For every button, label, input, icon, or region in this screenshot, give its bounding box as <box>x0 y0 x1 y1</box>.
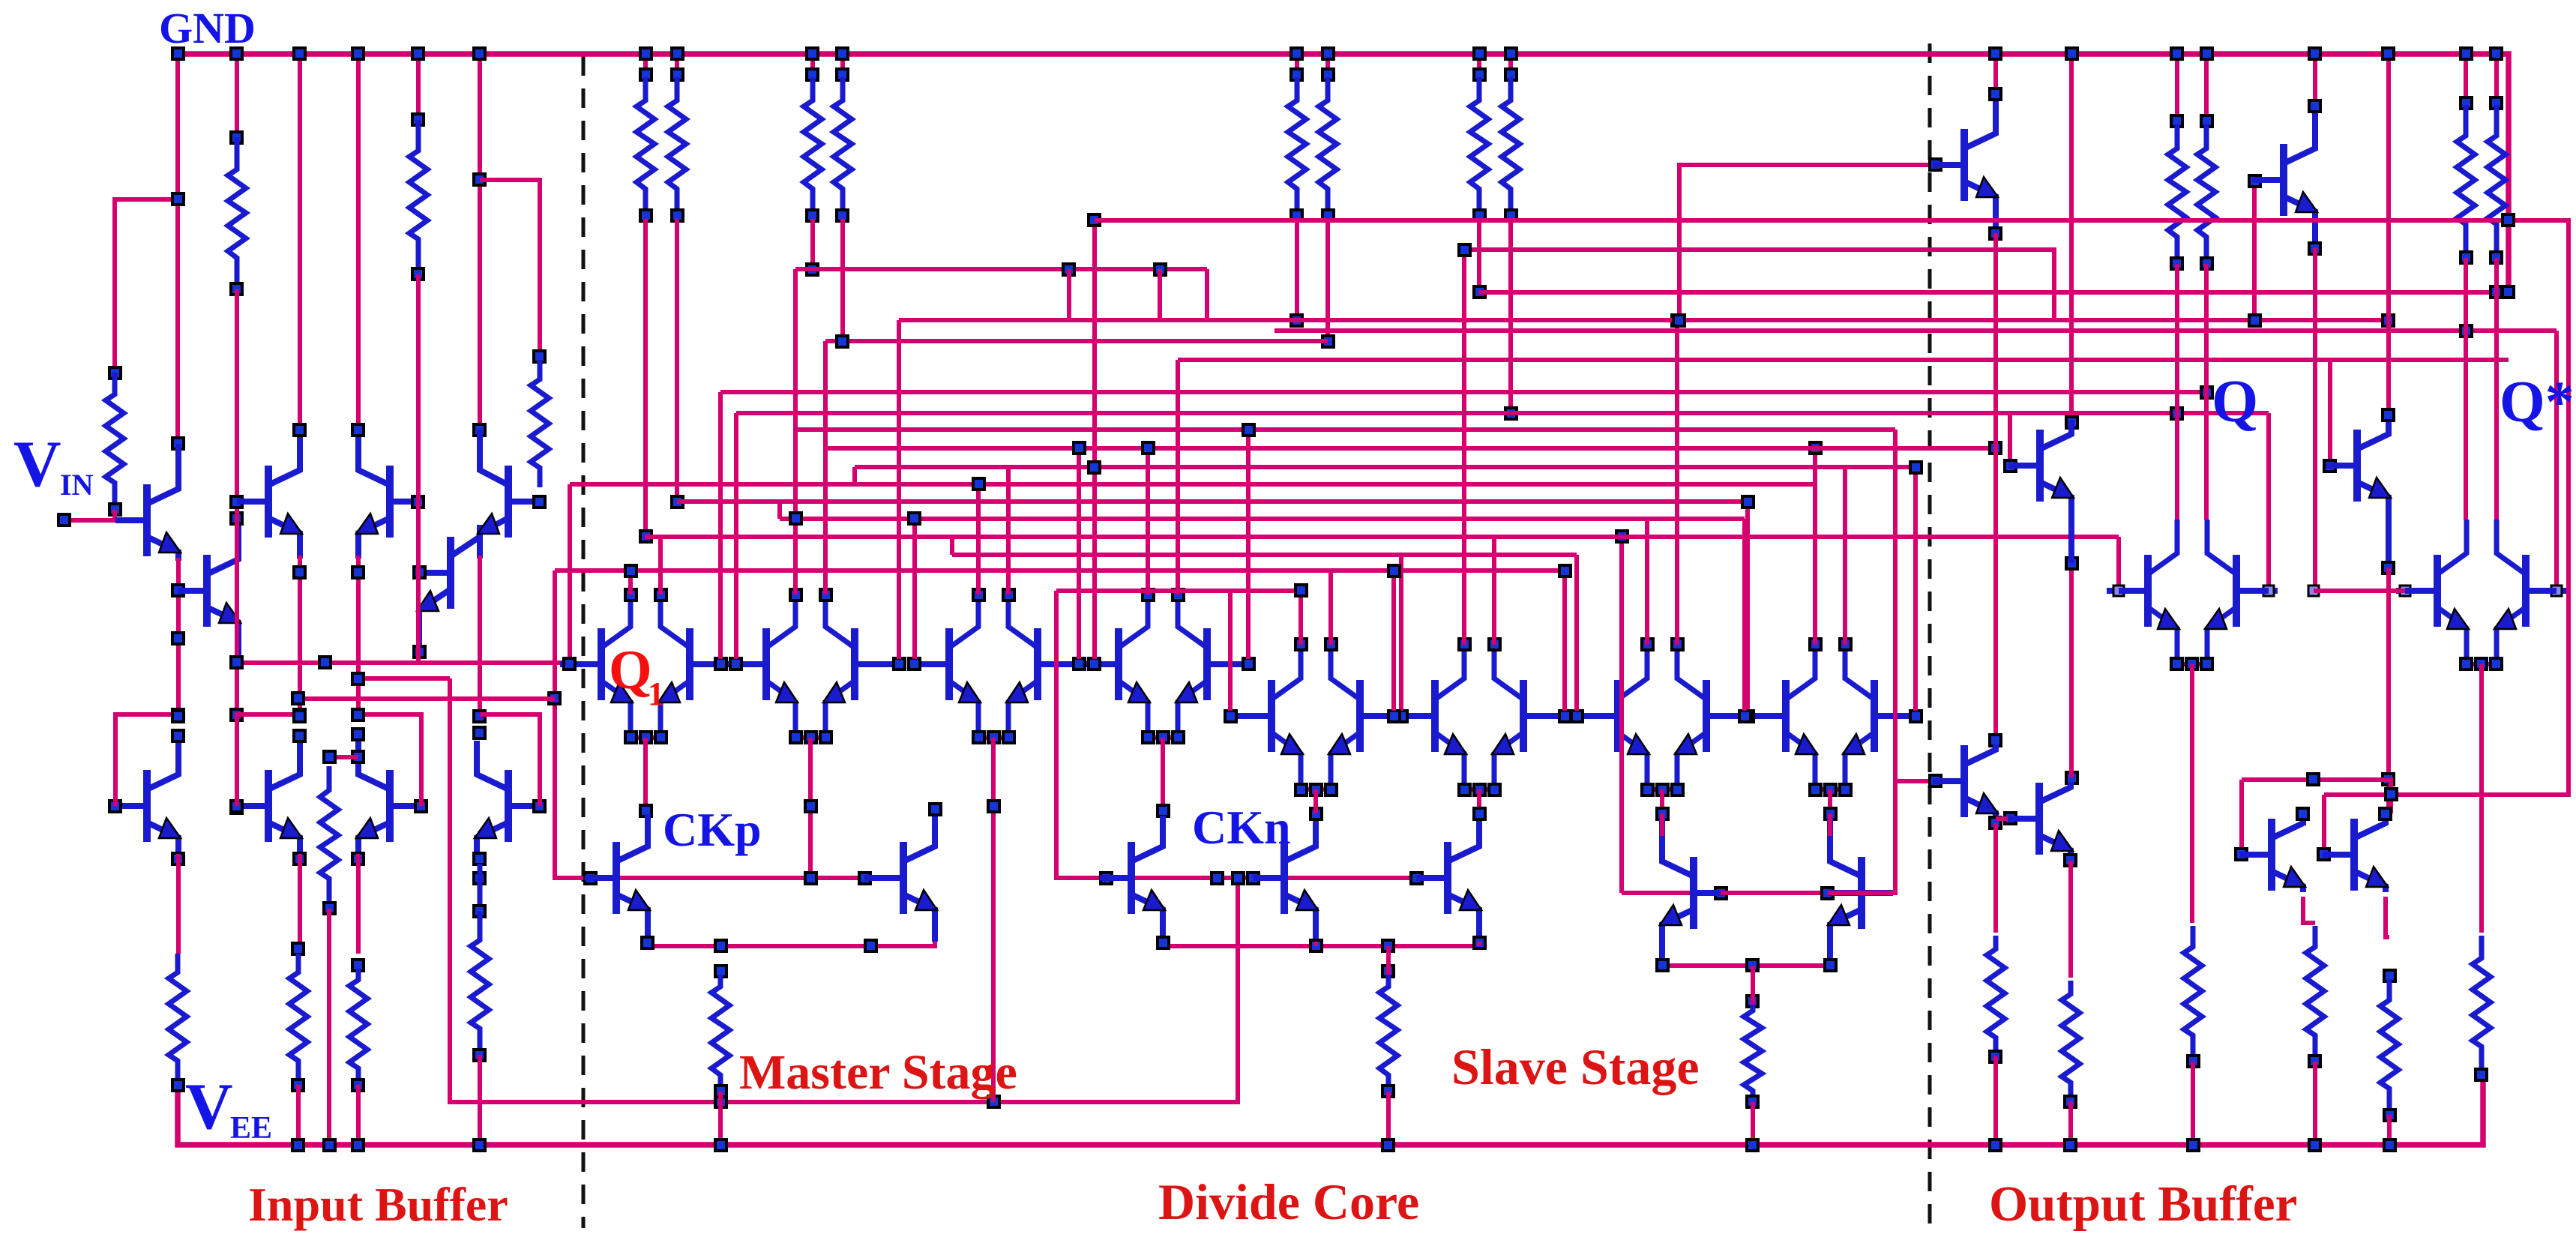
svg-text:Input Buffer: Input Buffer <box>248 1178 508 1231</box>
svg-text:1: 1 <box>648 675 664 712</box>
svg-text:V: V <box>185 1071 233 1143</box>
svg-text:CKp: CKp <box>663 803 762 856</box>
svg-text:Divide Core: Divide Core <box>1158 1173 1419 1230</box>
svg-text:Output Buffer: Output Buffer <box>1989 1176 2297 1232</box>
svg-text:V: V <box>13 428 61 501</box>
svg-text:Q: Q <box>2212 369 2258 435</box>
svg-text:Slave Stage: Slave Stage <box>1451 1038 1700 1095</box>
svg-text:EE: EE <box>230 1111 272 1146</box>
svg-text:Q*: Q* <box>2500 369 2575 434</box>
svg-text:GND: GND <box>159 4 256 52</box>
svg-text:IN: IN <box>60 468 94 502</box>
svg-text:CKn: CKn <box>1192 801 1291 854</box>
svg-text:Master Stage: Master Stage <box>739 1045 1017 1100</box>
svg-text:Q: Q <box>609 639 652 701</box>
